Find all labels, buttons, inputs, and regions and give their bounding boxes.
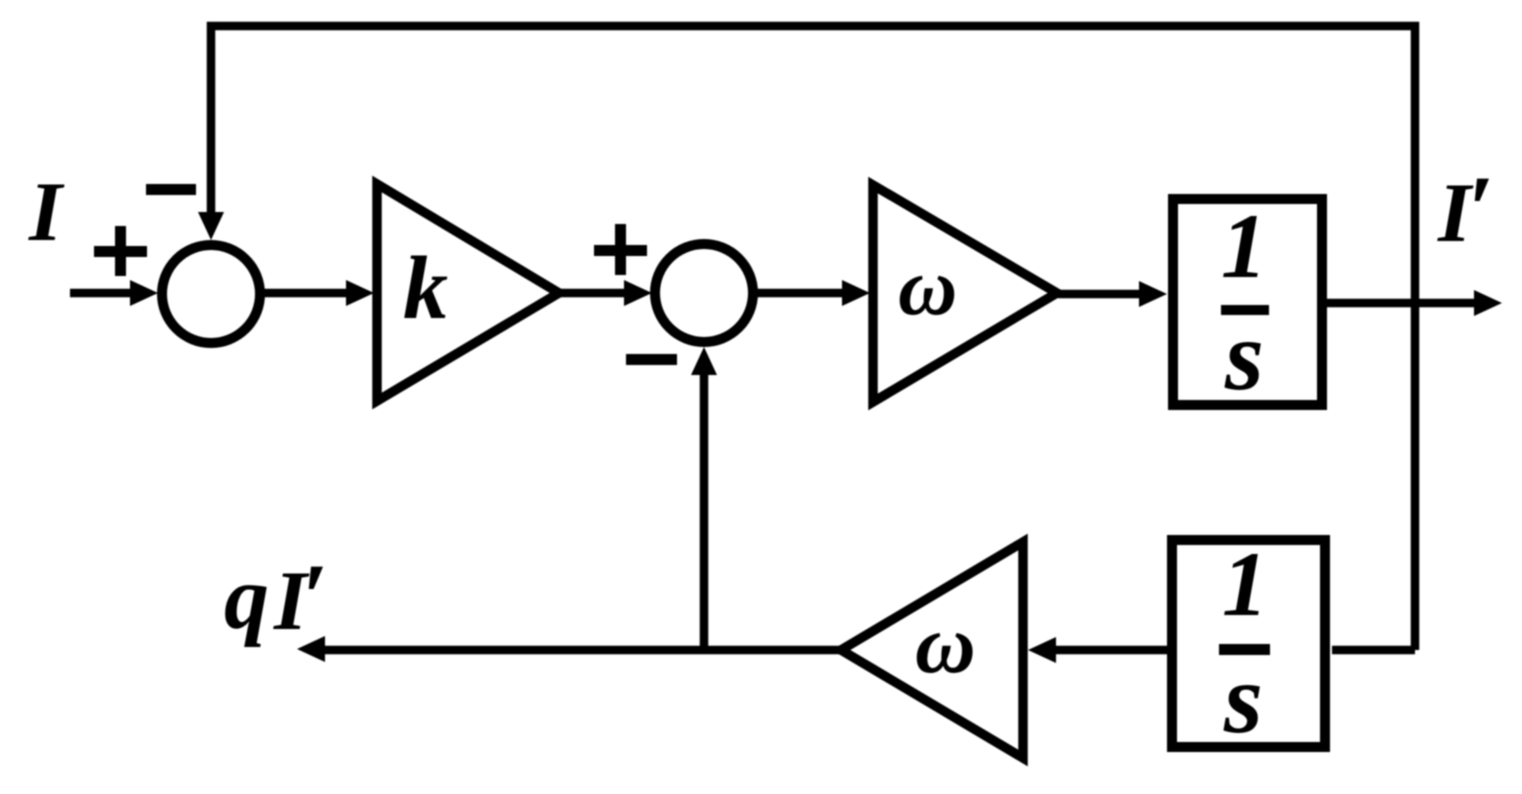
svg-text:ω: ω xyxy=(915,598,976,691)
wire: top feedback path (from output node up over the top, down into summing junction S1) xyxy=(198,26,1415,650)
wire: S1 to gain k xyxy=(260,280,374,306)
gain block omega forward (triangle amplifier) xyxy=(873,185,1057,402)
svg-text:1: 1 xyxy=(1222,533,1268,635)
wire: input arrow into summing junction S1 xyxy=(70,280,158,306)
label: minus sign at S1 feedback input xyxy=(146,184,196,195)
integrator block U2 (1/s) xyxy=(1172,540,1325,747)
wire: right riser into integrator U2 (horizontal stub) xyxy=(1332,646,1415,655)
svg-text:1: 1 xyxy=(1221,195,1267,297)
wire: k to summing junction S2 xyxy=(560,280,652,306)
wire: integrator U1 output to I' (crosses feedback riser) xyxy=(1327,290,1502,316)
svg-text:q: q xyxy=(224,549,269,648)
integrator block U1 (1/s) xyxy=(1173,199,1322,405)
svg-text:′: ′ xyxy=(301,544,328,650)
wire: omega to integrator block 1 xyxy=(1058,281,1167,307)
label: fraction bar of integrator U2 xyxy=(1219,644,1270,655)
label: tapped output signal qI' xyxy=(224,544,328,650)
summing junction S1 xyxy=(162,245,260,343)
wire: integrator U2 to gain omega (feedback) xyxy=(1028,637,1167,663)
svg-text:′: ′ xyxy=(1467,156,1494,262)
label: output signal I' xyxy=(1437,156,1494,262)
wire: omega feedback output to qI' (with tee to S2 riser) xyxy=(297,636,840,662)
svg-text:k: k xyxy=(403,239,448,338)
gain block k (triangle amplifier) xyxy=(377,184,559,401)
svg-text:s: s xyxy=(1223,643,1263,754)
svg-text:ω: ω xyxy=(898,241,957,332)
label: minus sign at S2 feedback input xyxy=(626,354,677,365)
label: plus sign at S1 input xyxy=(94,226,147,276)
summing junction S2 xyxy=(655,244,753,342)
wire: S2 to gain omega (forward) xyxy=(752,280,870,306)
label: plus sign at S2 input xyxy=(594,224,647,275)
wire: riser from feedback line up into S2 (minus input) xyxy=(691,347,717,650)
label: fraction bar of integrator U1 xyxy=(1221,305,1269,315)
svg-text:I: I xyxy=(28,165,65,259)
svg-text:s: s xyxy=(1224,300,1264,411)
gain block omega feedback (left-pointing triangle amplifier) xyxy=(841,542,1023,758)
